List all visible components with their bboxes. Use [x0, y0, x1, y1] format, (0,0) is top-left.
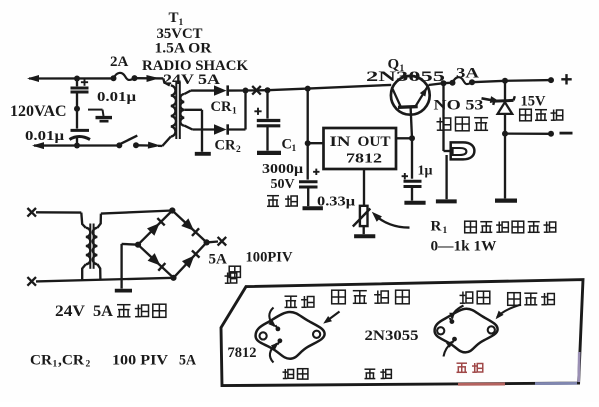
adjust arrow to R1 [372, 212, 410, 228]
svg-text:5A: 5A [179, 353, 196, 369]
switch S1 [116, 136, 139, 149]
transformer T1 secondary winding [180, 91, 192, 130]
svg-text:,CR: ,CR [58, 353, 85, 369]
transformer T1 primary winding [162, 78, 176, 146]
wire rail to Q1 collector [308, 85, 392, 89]
svg-text:0.01μ: 0.01μ [25, 129, 64, 144]
node lamp branch [441, 80, 447, 86]
wire top AC input [27, 75, 163, 82]
svg-text:5A: 5A [209, 252, 228, 268]
svg-text:1.5A OR: 1.5A OR [155, 41, 213, 57]
label input (CJK) [284, 369, 286, 379]
svg-text:R: R [431, 219, 442, 235]
svg-text:IN: IN [330, 134, 352, 150]
terminal minus output [548, 131, 554, 137]
red mark bottom edge [458, 383, 505, 386]
wire IN drop vertical [307, 89, 309, 144]
svg-text:T: T [169, 10, 179, 26]
arrow emitter to pin [452, 306, 463, 319]
wire Q1 base lead [411, 107, 412, 138]
svg-text:2: 2 [236, 145, 241, 155]
wire to plus terminal [505, 79, 551, 82]
node zener top [502, 78, 508, 84]
arrow collector to package [497, 305, 521, 318]
label qiao bridge char (CJK) [227, 273, 229, 284]
label output (CJK) [285, 295, 298, 297]
node bridge left [135, 242, 141, 248]
svg-text:CR: CR [30, 353, 53, 369]
label base (CJK red) [457, 362, 468, 364]
node C1 top [265, 87, 271, 93]
arrow base to pin [444, 342, 453, 357]
arrow pointing at zener [482, 98, 495, 100]
svg-text:24V: 24V [55, 303, 85, 320]
package 7812 output pin [276, 327, 281, 332]
wire zener to ground [504, 134, 506, 199]
node IN pin junction [305, 140, 311, 146]
svg-text:7812: 7812 [228, 345, 257, 361]
ground chassis at input caps [88, 110, 112, 122]
node zener bottom [502, 131, 508, 137]
wire to minus terminal [505, 132, 551, 135]
zener diode 15V [493, 81, 515, 134]
svg-text:OUT: OUT [358, 134, 391, 150]
svg-text:1: 1 [53, 360, 58, 370]
blue mark bottom edge [535, 382, 577, 385]
ground bridge [115, 289, 132, 293]
svg-text:1μ: 1μ [418, 164, 433, 179]
ground R1 [354, 226, 375, 236]
node bridge right [204, 239, 210, 245]
terminal x top AC in (bridge) [27, 208, 36, 217]
svg-text:3A: 3A [456, 66, 480, 82]
svg-text:3000μ: 3000μ [262, 162, 303, 177]
purple mark right edge [577, 352, 580, 382]
wire rail C1 to IN drop [268, 89, 308, 91]
fuse F2 3A [444, 77, 476, 86]
arrow input to pin [270, 344, 277, 363]
package 2N3055 emitter pin [450, 319, 455, 324]
svg-text:0—1k 1W: 0—1k 1W [431, 239, 498, 255]
wire bridge top input [36, 211, 81, 214]
ground 1u [404, 201, 425, 205]
node bridge top [169, 207, 175, 213]
label indicator lamp (CJK) [439, 118, 441, 131]
wire bridge bottom input [36, 278, 174, 282]
svg-text:1: 1 [232, 107, 237, 117]
fuse F1 2A [110, 54, 138, 81]
svg-text:15V: 15V [521, 94, 547, 110]
node regulator IN drop [305, 86, 311, 92]
transformer T2 secondary winding [93, 214, 101, 280]
arrow output to pin [269, 308, 274, 327]
package 7812 right hole [313, 331, 320, 338]
package 7812 left hole [260, 332, 267, 339]
wire OUT to base node [396, 137, 412, 139]
bridge rectifier edges [138, 211, 172, 245]
package 2N3055 outline [435, 309, 498, 353]
svg-text:1: 1 [443, 226, 448, 236]
ground lamp [436, 199, 457, 203]
terminal x bridge output [218, 237, 227, 246]
label ground or reference (CJK) [332, 290, 346, 304]
svg-text:24V 5A: 24V 5A [163, 72, 220, 88]
svg-text:C: C [282, 137, 292, 153]
svg-text:5A: 5A [93, 303, 113, 320]
node rectifier output [243, 88, 249, 94]
lamp ground wire [445, 155, 447, 199]
bridge diode bottom-left [148, 253, 161, 265]
package 7812 outline [256, 312, 325, 359]
node bridge bottom [170, 275, 176, 281]
node top input junction [74, 76, 80, 82]
terminal x bottom AC in (bridge) [27, 277, 36, 286]
node base-OUT junction [409, 135, 415, 141]
package 2N3055 left hole [437, 327, 444, 334]
diode CR2 [192, 124, 245, 134]
arrow ground-ref to right hole [326, 312, 340, 322]
label adjust output voltage (CJK) [465, 221, 477, 233]
node line-cap midpoint [74, 106, 80, 112]
inset box outline [221, 280, 583, 386]
lamp NO 53 wire [442, 83, 444, 151]
capacitor C1 3000u [254, 90, 280, 150]
transistor Q1 2N3055 [391, 76, 430, 115]
package 2N3055 right hole [488, 326, 495, 333]
ground zener [495, 199, 517, 203]
wire bridge left node to ground [122, 243, 138, 246]
label emitter (CJK) [462, 292, 464, 304]
wire rail fuse to zener node [472, 81, 505, 82]
lamp NO 53 indicator [451, 142, 475, 159]
capacitor 0.33u [299, 143, 320, 206]
svg-text:2: 2 [86, 360, 91, 370]
svg-text:2N3055: 2N3055 [366, 69, 445, 85]
capacitor 0.01u lower [25, 109, 90, 146]
node bottom cap junction [74, 143, 80, 149]
transformer T2 primary winding [81, 213, 90, 281]
svg-text:100 PIV: 100 PIV [112, 353, 169, 369]
wire bottom AC input [32, 142, 162, 149]
label bottom view (CJK) [365, 368, 376, 370]
bridge diode bottom-right [182, 255, 194, 268]
bridge diode top-right [181, 218, 194, 230]
package 2N3055 base pin [452, 337, 457, 342]
svg-text:100PIV: 100PIV [246, 250, 294, 266]
bridge diode top-left [147, 223, 160, 236]
svg-text:CR: CR [211, 99, 232, 115]
package 7812 input pin [278, 338, 283, 343]
wire secondary top to bridge [101, 211, 172, 214]
svg-text:NO 53: NO 53 [434, 98, 484, 114]
wire bridge output [207, 240, 218, 243]
resistor R1 potentiometer [353, 206, 371, 227]
regulator U1 7812 box [324, 128, 397, 169]
svg-text:50V: 50V [271, 177, 295, 192]
transformer T2 core [89, 224, 91, 269]
svg-text:7812: 7812 [346, 151, 382, 166]
svg-text:2A: 2A [110, 54, 129, 70]
ground center tap [195, 152, 211, 156]
wire IN stub to regulator [308, 142, 325, 144]
label optional (CJK) [267, 195, 279, 197]
transformer T1 core [175, 82, 177, 139]
capacitor 1u [402, 138, 422, 200]
wire Q1 emitter to lamp node [429, 83, 444, 85]
svg-text:1: 1 [292, 144, 297, 154]
ground C1 [257, 151, 281, 155]
label bridge (CJK) [229, 266, 240, 277]
wire secondary center tap to ground [184, 109, 202, 111]
svg-text:CR: CR [215, 138, 236, 154]
ground 0.33u [303, 206, 323, 210]
diode CR1 [191, 85, 246, 95]
svg-text:120VAC: 120VAC [10, 103, 67, 120]
svg-text:0.33μ: 0.33μ [317, 195, 355, 210]
wire rectifier node to C1 node [246, 89, 268, 92]
label zener regulator (CJK) [520, 109, 532, 121]
capacitor 0.01u upper [71, 79, 137, 109]
terminal x mark on positive rail [252, 86, 261, 95]
terminal plus output [548, 77, 554, 83]
wire CR2 riser to positive node [244, 91, 246, 130]
svg-text:2N3055: 2N3055 [365, 328, 419, 344]
label collector (CJK) [508, 293, 521, 306]
svg-text:0.01μ: 0.01μ [97, 90, 136, 105]
wire regulator ADJ pin down [363, 169, 365, 206]
